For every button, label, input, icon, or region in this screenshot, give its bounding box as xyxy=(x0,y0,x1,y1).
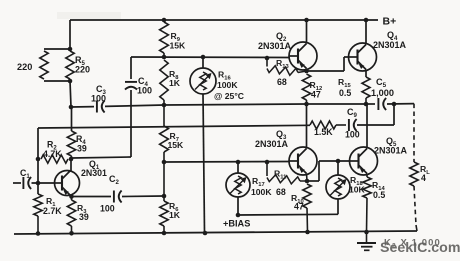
svg-text:0.5: 0.5 xyxy=(339,88,351,98)
svg-text:100: 100 xyxy=(91,94,106,104)
thermistor/varistor R18 10K xyxy=(326,175,350,199)
node Q3 emitter / R10 / Q5 base link xyxy=(305,179,310,184)
svg-text:100: 100 xyxy=(100,204,115,214)
node R8 top xyxy=(162,55,167,60)
wire RL dashed bottom xyxy=(414,186,416,225)
node Q2 base / R13 xyxy=(265,56,270,61)
wire down to C3 node xyxy=(70,81,71,107)
capacitor C3 xyxy=(97,101,105,113)
wire C4 bottom down xyxy=(130,90,132,157)
transistor Q2 2N301A xyxy=(289,42,317,70)
svg-text:+BIAS: +BIAS xyxy=(223,219,250,229)
wire R16 top lead xyxy=(202,57,204,68)
svg-text:2N301: 2N301 xyxy=(81,168,107,178)
node R12 bottom / Q3 collector xyxy=(304,102,309,107)
wire R18 bottom lead xyxy=(337,199,339,214)
svg-text:2N301A: 2N301A xyxy=(258,41,292,51)
svg-text:100K: 100K xyxy=(217,80,238,90)
node C2 right / R6 / R7 xyxy=(162,194,167,199)
resistor R6 1K xyxy=(160,201,168,226)
node C3 left / R4 / 220 pair xyxy=(69,105,74,110)
wire R16 to ground bus xyxy=(203,94,205,232)
svg-text:47: 47 xyxy=(311,90,321,100)
node R16 top xyxy=(201,55,206,60)
wire R18 top lead xyxy=(337,161,339,175)
node Q1 base / R1 / feedback xyxy=(36,181,41,186)
node R2 left xyxy=(36,157,41,162)
wire C9 to output node xyxy=(357,124,394,126)
wire emitter line with C2 xyxy=(72,196,112,198)
svg-text:2N301A: 2N301A xyxy=(255,139,289,149)
wire R4 top xyxy=(71,107,73,131)
resistor RL 4 xyxy=(410,162,418,186)
svg-text:100: 100 xyxy=(345,130,360,140)
svg-text:39: 39 xyxy=(79,212,89,222)
wire R10 to bus xyxy=(306,208,309,232)
svg-text:15K: 15K xyxy=(168,140,185,150)
thermistor/varistor R17 100K xyxy=(226,173,250,197)
wire ground bus xyxy=(14,231,417,234)
wire feedback corner down xyxy=(37,128,39,159)
node R6 bottom on bus xyxy=(162,231,167,236)
wire C1 to Q1 base xyxy=(32,182,56,184)
wire C4 top xyxy=(130,57,132,79)
svg-text:@ 25°C: @ 25°C xyxy=(214,91,244,101)
resistor R12 47 xyxy=(302,74,310,100)
svg-text:47: 47 xyxy=(294,202,304,212)
transistor Q4 2N301A xyxy=(349,43,377,71)
capacitor C4 xyxy=(125,82,137,90)
node Q4 collector on bus xyxy=(364,18,369,23)
transistor Q3 2N301A xyxy=(289,147,317,175)
wire Q1 emitter xyxy=(71,195,72,197)
svg-text:68: 68 xyxy=(277,77,287,87)
resistor R2 4.7K xyxy=(41,155,68,163)
wire Q2 base line y57 xyxy=(131,56,289,59)
svg-text:2N301A: 2N301A xyxy=(374,146,408,156)
resistor R1 2.7K xyxy=(34,194,42,216)
node R7 tap to Q3 base line xyxy=(162,160,167,165)
node R17 bottom / bias line xyxy=(236,213,241,218)
wire into C5 xyxy=(366,103,375,105)
wire Q5 emitter xyxy=(366,174,368,178)
svg-text:SeekIC.com: SeekIC.com xyxy=(380,240,460,256)
wire Q4 collector to B+ xyxy=(365,20,367,45)
transistor Q1 2N301 xyxy=(55,171,80,196)
resistor 220 (left of pair) xyxy=(44,48,70,50)
wire Q2 collector to B+ xyxy=(306,20,308,44)
svg-text:220: 220 xyxy=(75,65,90,75)
svg-text:39: 39 xyxy=(77,144,87,154)
wire Q5 collector up xyxy=(366,104,368,149)
node Q2 collector on bus xyxy=(304,18,309,23)
wire Q4 emitter xyxy=(365,70,367,78)
wire C3 to R8 bottom node xyxy=(105,105,164,106)
svg-text:4.7K: 4.7K xyxy=(43,149,62,159)
node parallel pair top xyxy=(68,47,73,52)
node ground point xyxy=(364,230,369,235)
node Q1 emitter / R3 / C2 xyxy=(69,194,74,199)
resistor R10 47 xyxy=(303,184,311,208)
resistor R5 220 xyxy=(66,51,74,79)
node R11 corner xyxy=(265,160,270,165)
node R3 bottom on bus xyxy=(69,231,74,236)
resistor R3 39 xyxy=(67,200,75,226)
thermistor/varistor R16 100K xyxy=(190,68,216,94)
capacitor C5 xyxy=(378,98,386,110)
capacitor C9 xyxy=(349,119,357,131)
wire feedback line xyxy=(38,125,310,128)
wire R17 top lead xyxy=(237,162,239,173)
transistor Q5 2N301A xyxy=(350,147,378,175)
node R1 bottom on ground bus xyxy=(36,231,41,236)
svg-text:1,000: 1,000 xyxy=(371,88,394,98)
svg-text:10K: 10K xyxy=(349,185,366,195)
resistor R9 15K xyxy=(160,22,169,53)
wire R8 node to R12 node xyxy=(164,104,306,105)
wire Q4 base to Q2 emitter xyxy=(344,56,349,58)
svg-text:68: 68 xyxy=(276,187,286,197)
wire C4 to Q1 collector node xyxy=(72,157,131,158)
wire Q3 emitter to Q5 base xyxy=(307,180,319,182)
node R16 bottom on bus xyxy=(203,231,208,236)
node R8 bottom / R7 top xyxy=(162,103,167,108)
svg-text:1K: 1K xyxy=(169,78,181,88)
ground symbol xyxy=(366,232,368,243)
wire R14 to bus xyxy=(366,198,369,232)
svg-text:4: 4 xyxy=(421,173,426,183)
wire base vertical xyxy=(37,159,39,183)
node R2 right / R4 bottom / Q1 collector xyxy=(69,157,74,162)
node R15 bottom / C5 / Q5 collector xyxy=(364,102,369,107)
resistor R8 1K xyxy=(160,60,168,100)
wire Q3 base line xyxy=(164,161,289,164)
wire R12 node to R15 node xyxy=(306,103,366,105)
resistor R15 0.5 xyxy=(362,77,370,98)
wire Q1 collector xyxy=(70,159,72,172)
wire B+ top bus xyxy=(70,19,378,21)
node R9 top on B+ bus xyxy=(162,18,167,23)
wire to R1 xyxy=(37,183,39,194)
wire mid line with C3 xyxy=(71,106,94,108)
wire R7 bottom section xyxy=(163,152,165,196)
wire +BIAS line xyxy=(238,213,338,216)
svg-text:1.5K: 1.5K xyxy=(314,127,333,137)
resistor 1.5K xyxy=(310,121,336,129)
resistor R13 68 xyxy=(266,58,268,67)
svg-text:2.7K: 2.7K xyxy=(43,206,62,216)
node C5 right / feedback / RL xyxy=(392,102,397,107)
wire 1.5K to C9 xyxy=(336,124,346,126)
wire Q2 emitter xyxy=(306,69,308,72)
svg-text:15K: 15K xyxy=(170,41,187,51)
wire Q3 collector up xyxy=(306,104,308,149)
resistor R4 39 xyxy=(67,131,75,156)
wire Q3 emitter xyxy=(306,174,309,182)
node R17 top xyxy=(236,160,241,165)
node parallel pair bottom xyxy=(68,79,73,84)
wire input line xyxy=(13,182,21,184)
wire up to C5 right node xyxy=(393,104,395,125)
node R18 top on Q5 base line xyxy=(336,159,341,164)
resistor R14 0.5 xyxy=(363,177,371,198)
svg-text:B+: B+ xyxy=(383,16,397,28)
capacitor C2 xyxy=(114,191,122,203)
resistor R11 68 xyxy=(266,162,268,176)
svg-text:0.5: 0.5 xyxy=(373,190,385,200)
svg-text:2N301A: 2N301A xyxy=(373,40,407,50)
resistor R7 15K xyxy=(160,126,169,152)
wire R17 bottom lead xyxy=(237,197,239,215)
wire to parallel pair xyxy=(69,20,71,49)
wire C5 to RL corner xyxy=(387,103,414,105)
svg-text:1K: 1K xyxy=(169,210,181,220)
node Q2 emitter / R12 / Q4 base xyxy=(304,69,309,74)
svg-text:100: 100 xyxy=(137,86,152,96)
capacitor C1 xyxy=(23,177,31,189)
svg-text:100K: 100K xyxy=(251,187,272,197)
wire RL dashed top xyxy=(413,104,415,162)
svg-text:220: 220 xyxy=(17,62,32,72)
node R10 bottom on bus xyxy=(305,230,310,235)
